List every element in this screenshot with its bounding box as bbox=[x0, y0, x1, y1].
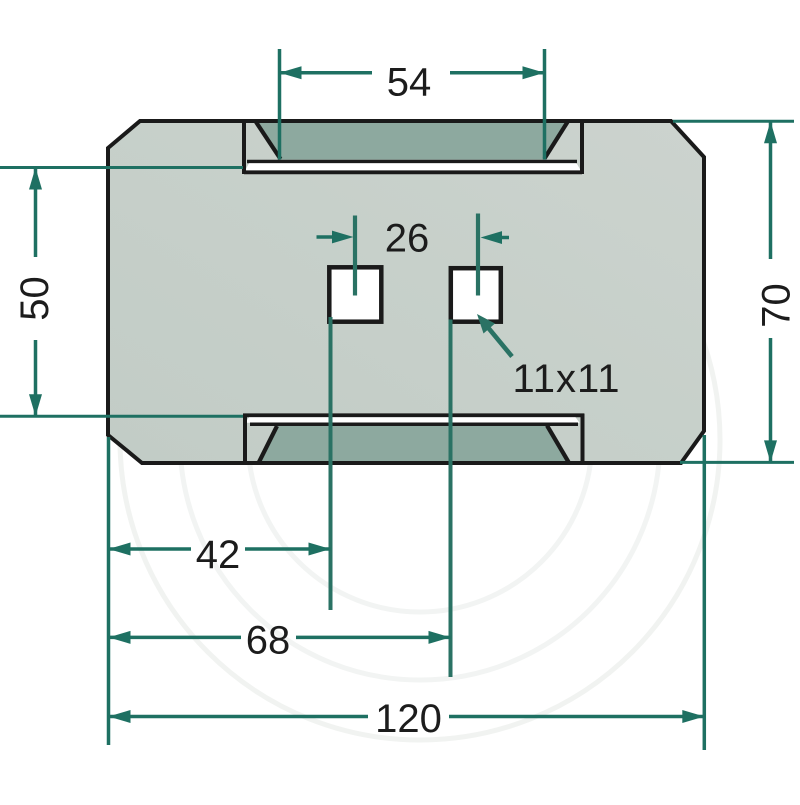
bottom slot dark bevel trapezoid bbox=[259, 426, 566, 461]
extension line 26 right into S2 bbox=[476, 214, 480, 296]
leader arrow 11x11 head bbox=[477, 314, 495, 334]
dimension 50 line upper bbox=[34, 168, 38, 257]
svg-text:54: 54 bbox=[387, 61, 432, 105]
dimension 26 arrow right head bbox=[481, 231, 503, 244]
svg-text:120: 120 bbox=[375, 697, 442, 741]
bottom slot right wall bbox=[581, 414, 585, 465]
dimension 50 arrow up bbox=[29, 168, 42, 190]
square hole S1 bbox=[329, 267, 381, 321]
dimension 68 line left bbox=[109, 636, 242, 640]
dimension 50 arrow down bbox=[29, 394, 42, 416]
extension line bottom left bbox=[107, 437, 111, 745]
dimension 42 arrow right bbox=[309, 543, 331, 556]
top slot left slant bbox=[256, 122, 281, 159]
dimension 50 line lower bbox=[34, 340, 38, 416]
extension line bottom right bbox=[703, 435, 707, 750]
square hole S2 bbox=[451, 268, 501, 322]
top slot left wall bbox=[242, 120, 246, 175]
svg-text:26: 26 bbox=[385, 217, 430, 261]
dimension 42 line right bbox=[245, 547, 331, 551]
bottom slot ledge line bbox=[250, 422, 578, 426]
dimension 42 arrow left bbox=[109, 543, 131, 556]
dimension 120 arrow left bbox=[109, 710, 131, 723]
extension line 26 left into S1 bbox=[353, 216, 357, 296]
plate outline (octagon with chamfered corners) bbox=[108, 121, 704, 463]
dimension 42 line left bbox=[109, 547, 192, 551]
dimension 54 line right bbox=[450, 71, 544, 75]
bottom slot left wall bbox=[243, 414, 247, 465]
watermark circle inner bbox=[180, 200, 660, 680]
extension line 50 bottom bbox=[0, 415, 243, 418]
top slot ledge line bbox=[247, 160, 577, 164]
top slot white strip bbox=[245, 163, 581, 170]
dimension 68 arrow left bbox=[109, 631, 131, 644]
top slot right slant bbox=[545, 122, 568, 159]
bottom slot left slant bbox=[259, 426, 277, 462]
extension line 54 right bbox=[543, 49, 547, 160]
dimension 54 arrow left bbox=[280, 66, 302, 79]
svg-text:11x11: 11x11 bbox=[512, 357, 620, 401]
leader arrow 11x11 shaft bbox=[488, 328, 512, 357]
dimension 120 line left bbox=[109, 715, 369, 719]
dimension 26 arrow left head bbox=[332, 231, 354, 244]
extension line 50 top bbox=[0, 166, 243, 169]
extension line 54 left bbox=[278, 49, 282, 160]
extension line 68 from S2 corner bbox=[449, 320, 453, 678]
svg-text:70: 70 bbox=[755, 283, 799, 328]
dimension 70 line lower bbox=[769, 338, 773, 462]
dimension 70 arrow down bbox=[764, 440, 777, 462]
dimension 26 arrow left shaft bbox=[317, 235, 337, 239]
dimension 120 arrow right bbox=[682, 710, 704, 723]
top slot bottom line bbox=[244, 170, 582, 174]
svg-text:50: 50 bbox=[13, 276, 57, 321]
dimension 26 arrow right shaft bbox=[497, 236, 509, 240]
bottom slot top line bbox=[243, 413, 584, 417]
dimension 54 arrow right bbox=[523, 66, 545, 79]
top slot dark bevel trapezoid bbox=[255, 123, 568, 160]
svg-text:68: 68 bbox=[246, 619, 291, 663]
watermark circle outer bbox=[120, 140, 720, 740]
watermark circle mid bbox=[248, 268, 592, 612]
extension line 70 bottom bbox=[680, 461, 794, 464]
extension line 42 from S1 corner bbox=[329, 317, 333, 610]
dimension 120 line right bbox=[449, 715, 704, 719]
svg-text:42: 42 bbox=[196, 533, 241, 577]
bottom slot right slant bbox=[547, 426, 569, 463]
extension line 70 top bbox=[673, 120, 794, 123]
dimension 70 line upper bbox=[769, 122, 773, 259]
dimension 70 arrow up bbox=[764, 121, 777, 143]
dimension 68 line right bbox=[296, 636, 451, 640]
bottom slot white strip bbox=[245, 417, 580, 422]
dimension 54 line left bbox=[280, 71, 372, 75]
top slot right wall bbox=[580, 120, 584, 175]
dimension 68 arrow right bbox=[429, 631, 451, 644]
